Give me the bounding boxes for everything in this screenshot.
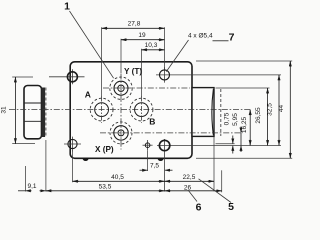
port X (P) [110, 122, 132, 144]
item 1 with leader to port Y [64, 0, 114, 78]
mounting hole top-right [156, 67, 281, 82]
svg-text:0,75: 0,75 [223, 112, 230, 125]
svg-text:6: 6 [196, 202, 202, 214]
svg-text:X (P): X (P) [95, 145, 114, 154]
svg-text:32,5: 32,5 [267, 103, 274, 116]
dim 22,5 [165, 137, 214, 191]
svg-text:5: 5 [228, 201, 234, 213]
port B [130, 97, 153, 123]
svg-text:40,5: 40,5 [111, 174, 124, 181]
svg-text:31: 31 [1, 106, 8, 114]
hidden line right of block [220, 89, 222, 136]
dim 16,25 [241, 110, 250, 146]
dim 53,5 [46, 140, 165, 192]
horizontal centerline Y axis [103, 87, 190, 89]
dim 27,8 [102, 21, 165, 97]
dim 7,5 [140, 151, 173, 171]
vertical centerline Y-X axis [120, 74, 122, 150]
locating bump left [83, 158, 89, 161]
right extension line bottom edge [196, 157, 292, 159]
dim 0,75 [223, 112, 232, 153]
svg-text:B: B [149, 117, 155, 127]
horizontal centerline X axis [100, 132, 243, 134]
svg-text:10,3: 10,3 [145, 42, 158, 49]
right extension line Y level [216, 87, 270, 89]
dim 31 (left) [1, 77, 36, 144]
mounting hole bottom-left [64, 137, 81, 152]
locating bump right [158, 158, 164, 161]
svg-text:9,1: 9,1 [27, 183, 36, 190]
svg-text:44: 44 [278, 105, 285, 113]
item 5 with leader [199, 179, 235, 213]
right extension line BL-hole level [216, 143, 235, 145]
dim 26 [165, 170, 222, 192]
svg-text:19: 19 [138, 32, 146, 39]
dim 26,55 [255, 88, 268, 146]
svg-text:26,55: 26,55 [255, 107, 262, 124]
dim 32,5 [267, 75, 279, 146]
dim 19 [121, 32, 165, 73]
dim 10,3 [142, 42, 165, 97]
hidden thread line [45, 88, 47, 138]
label 4 x O5,4 with item 7 [166, 32, 234, 72]
svg-text:7: 7 [229, 32, 235, 44]
svg-text:53,5: 53,5 [99, 184, 112, 191]
mounting hole bottom-right [157, 139, 281, 192]
svg-text:4 x Ø5,4: 4 x Ø5,4 [188, 33, 213, 40]
svg-text:22,5: 22,5 [183, 174, 196, 181]
port A [90, 97, 113, 123]
left hex plug head [24, 86, 42, 139]
valve body outline [70, 62, 192, 159]
svg-text:16,25: 16,25 [241, 116, 248, 133]
dim 9,1 [18, 166, 46, 192]
dim 5,95 [232, 113, 241, 152]
svg-text:Y (T): Y (T) [124, 67, 142, 76]
right end block (plug) [192, 88, 214, 137]
right extension line top edge [196, 60, 292, 62]
dim 40,5 [73, 151, 165, 183]
mounting hole top-left [49, 69, 85, 84]
svg-text:1: 1 [64, 0, 70, 12]
svg-text:27,8: 27,8 [128, 21, 141, 28]
dim 44 [278, 61, 291, 158]
horizontal centerline A-B axis [9, 109, 252, 111]
washer [42, 88, 46, 138]
port Y (T) [110, 77, 132, 99]
svg-text:A: A [85, 90, 91, 100]
svg-text:5,95: 5,95 [232, 113, 239, 126]
item 6 with leader [188, 190, 202, 214]
locating pin hole [143, 140, 153, 151]
svg-text:7,5: 7,5 [150, 163, 159, 170]
